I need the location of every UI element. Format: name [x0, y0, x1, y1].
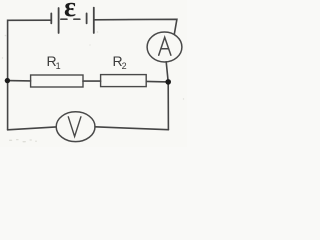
svg-text:2: 2 — [122, 61, 127, 71]
svg-text:ε: ε — [64, 0, 76, 23]
svg-text:1: 1 — [56, 61, 61, 71]
